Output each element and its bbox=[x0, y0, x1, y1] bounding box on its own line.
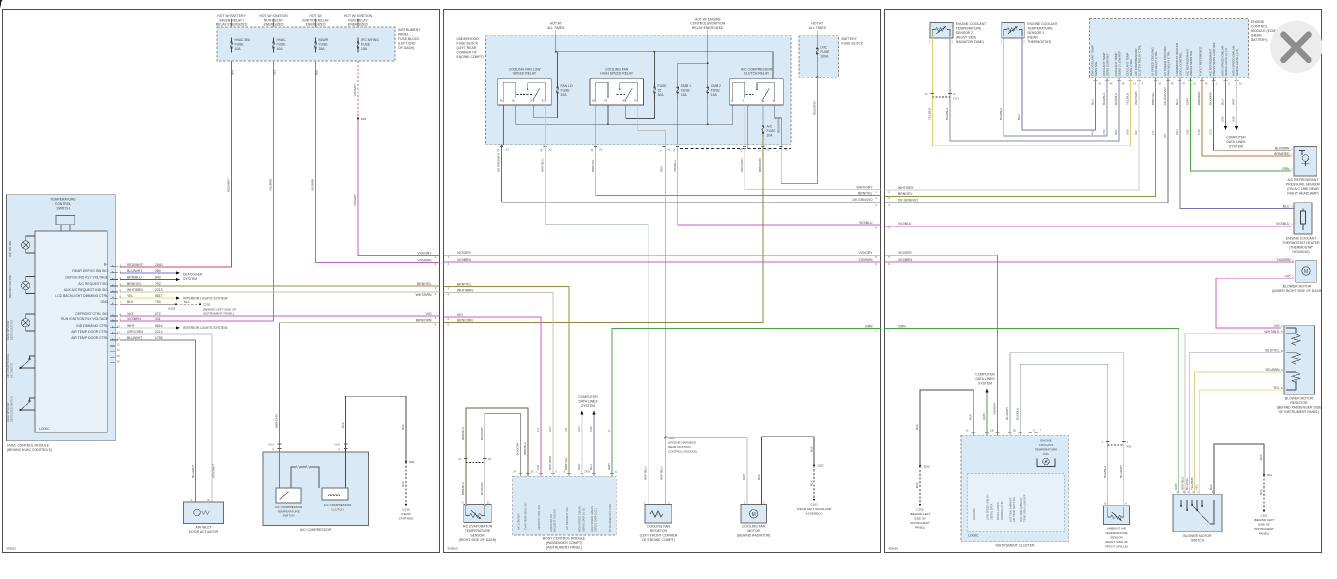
svg-text:BLU: BLU bbox=[589, 464, 593, 470]
svg-text:TEMP SENS LOW REF: TEMP SENS LOW REF bbox=[1023, 494, 1027, 522]
internal wiring relay K3 pin5 to battery feed riser bbox=[775, 105, 781, 144]
svg-text:A: A bbox=[338, 447, 340, 451]
svg-text:A: A bbox=[462, 500, 464, 504]
header label hot w/ battery saver relay bbox=[216, 14, 248, 27]
svg-text:BRN/YEL: BRN/YEL bbox=[457, 282, 472, 286]
svg-text:DEFOGGER SWITCH: DEFOGGER SWITCH bbox=[10, 396, 14, 422]
wire VIO 272 pin 8 to right edge exit 5 bbox=[120, 315, 440, 317]
HVAC module signal labels bbox=[55, 263, 108, 340]
svg-text:IPC B/FING: IPC B/FING bbox=[361, 38, 379, 42]
A/C evaporator temperature sensor box bbox=[464, 505, 492, 523]
svg-text:BLK/BLU: BLK/BLU bbox=[1102, 93, 1106, 105]
svg-text:BLU/WHT: BLU/WHT bbox=[191, 464, 195, 478]
svg-text:RED/GRN: RED/GRN bbox=[812, 101, 816, 115]
svg-text:BLU/GRY: BLU/GRY bbox=[1119, 465, 1123, 478]
wire YEL/BRN resistor pin A to blower switch bbox=[1195, 372, 1281, 494]
svg-text:BLK: BLK bbox=[401, 424, 405, 430]
HVAC module bottom label bbox=[7, 444, 52, 453]
wire GRY splice to cooling fan motor pin 1 bbox=[666, 438, 747, 505]
svg-text:B+: B+ bbox=[104, 263, 108, 267]
svg-text:TEMPERATURE: TEMPERATURE bbox=[1027, 27, 1053, 31]
svg-text:(RIGHT SIDE OF: (RIGHT SIDE OF bbox=[1105, 540, 1128, 544]
svg-text:VIO: VIO bbox=[1285, 274, 1291, 278]
wire VIO/BRN from fuse F3 to right edge exit 2 bbox=[316, 61, 440, 263]
wire stub to fuse F4 bbox=[357, 19, 359, 28]
svg-text:BLK: BLK bbox=[915, 424, 919, 430]
indicator lamp REAR WINDOW DEFOGGER IND bbox=[21, 314, 35, 331]
svg-text:FAN RELAY CTRL: FAN RELAY CTRL bbox=[1154, 51, 1158, 76]
svg-text:C202: C202 bbox=[203, 303, 211, 307]
left edge entry labels panel 2 bbox=[457, 251, 473, 322]
svg-text:BLK/BRN: BLK/BRN bbox=[1275, 146, 1290, 150]
fuse 35 30A bbox=[654, 83, 656, 100]
svg-text:INTERIOR LIGHTS SYSTEM: INTERIOR LIGHTS SYSTEM bbox=[183, 326, 227, 330]
internal wiring coil bus line A bbox=[516, 105, 733, 124]
internal wiring CMB1 fuse down to exit bbox=[677, 100, 679, 145]
svg-text:CMB 1: CMB 1 bbox=[681, 84, 691, 88]
svg-text:2761: 2761 bbox=[1102, 129, 1106, 135]
svg-text:SIDE OF: SIDE OF bbox=[1258, 523, 1270, 527]
svg-text:SYSTEM: SYSTEM bbox=[978, 382, 992, 386]
svg-text:G156: G156 bbox=[402, 508, 410, 512]
svg-text:OUT SIDE AMBIENT: OUT SIDE AMBIENT bbox=[1019, 497, 1023, 522]
through wire VIO/BRN panel1 to panel3 bbox=[444, 261, 881, 263]
svg-text:272: 272 bbox=[155, 312, 161, 316]
svg-text:HOUSING): HOUSING) bbox=[1293, 250, 1310, 254]
instrument cluster box bbox=[961, 435, 1069, 542]
svg-text:2213: 2213 bbox=[155, 330, 163, 334]
svg-text:X08: X08 bbox=[1127, 445, 1132, 449]
HVAC control module outer box bbox=[7, 195, 116, 441]
svg-text:VIO/BRN: VIO/BRN bbox=[859, 258, 873, 262]
right edge exit labels panel 2 bbox=[853, 186, 874, 329]
svg-text:SENSOR: SENSOR bbox=[1110, 536, 1124, 540]
svg-text:INSTRUMENT: INSTRUMENT bbox=[1254, 527, 1274, 531]
svg-text:WHT: WHT bbox=[127, 324, 135, 328]
svg-text:15A: 15A bbox=[681, 93, 688, 97]
svg-text:439655: 439655 bbox=[888, 547, 898, 551]
svg-text:A/C: A/C bbox=[767, 125, 773, 129]
svg-text:BLK: BLK bbox=[341, 422, 345, 428]
svg-text:X2: X2 bbox=[506, 148, 510, 152]
cooling fan motor box bbox=[741, 505, 767, 524]
svg-text:AIR INLET: AIR INLET bbox=[195, 526, 211, 530]
ECM internal pin function labels bbox=[1090, 42, 1239, 76]
svg-text:900: 900 bbox=[315, 70, 319, 75]
ECM pin ticks and numbers bbox=[1094, 79, 1239, 81]
svg-text:AIR TEMP SENS SIG: AIR TEMP SENS SIG bbox=[1012, 497, 1016, 522]
svg-text:LCD BACKLIGHT DIMMING CTRL: LCD BACKLIGHT DIMMING CTRL bbox=[55, 294, 108, 298]
wire WHT/BLU splice to cooling fan resistor pin 2 bbox=[665, 438, 667, 505]
svg-text:BLOWER MOTOR: BLOWER MOTOR bbox=[1285, 397, 1314, 401]
svg-text:C202: C202 bbox=[916, 508, 924, 512]
svg-text:BLK: BLK bbox=[757, 474, 761, 480]
svg-text:BRN/RED: BRN/RED bbox=[1197, 91, 1201, 105]
svg-text:TEMPERATURE: TEMPERATURE bbox=[1035, 448, 1057, 452]
wire BRN/RED ECM to pressure sensor pin 2 bbox=[1202, 78, 1291, 156]
fuse F4 IPC B/FING 10A bbox=[357, 38, 359, 53]
fuse block side label bbox=[398, 28, 420, 50]
A/C evaporator temperature sensor wires BRN/BLU and BLK/GRY bbox=[466, 408, 528, 504]
wire row labels pins 1-12 bbox=[127, 263, 163, 340]
svg-text:COOLING FAN: COOLING FAN bbox=[647, 525, 671, 529]
svg-text:VIO/BRN: VIO/BRN bbox=[898, 258, 912, 262]
svg-text:WHT/BRN: WHT/BRN bbox=[416, 293, 432, 297]
wire BLK 750 pin 7 to ground G202 bbox=[120, 303, 176, 305]
svg-text:OF ENGINE COMPT): OF ENGINE COMPT) bbox=[642, 538, 675, 542]
header hot w/ engine controls/ignition relay energized bbox=[690, 17, 725, 30]
svg-text:2213: 2213 bbox=[548, 426, 552, 432]
svg-text:AIR CONDITIONING: AIR CONDITIONING bbox=[6, 354, 10, 378]
rotated labels above blower switch bbox=[1174, 477, 1213, 490]
header hot at all times (battery) bbox=[809, 22, 827, 30]
through wire VIO/GRY panel1 to panel3 bbox=[444, 254, 881, 256]
wire BLK inside compressor box bbox=[345, 452, 347, 488]
svg-text:(LEFT REAR: (LEFT REAR bbox=[457, 46, 477, 50]
svg-text:X2: X2 bbox=[766, 148, 770, 152]
svg-text:BLK: BLK bbox=[915, 482, 919, 488]
svg-text:B: B bbox=[1281, 349, 1283, 353]
exit ticks at block bottom bbox=[500, 146, 783, 148]
svg-text:ENERGIZED: ENERGIZED bbox=[306, 23, 326, 27]
engine coolant temperature indicator bbox=[1035, 439, 1057, 457]
svg-text:E: E bbox=[1281, 386, 1283, 390]
wire BRN/ORN from right edge entry 6 to A/C compressor temp switch bbox=[280, 323, 440, 452]
svg-text:BLU: BLU bbox=[1221, 99, 1225, 105]
svg-text:RUN IGNITION RLY VOLTAGE: RUN IGNITION RLY VOLTAGE bbox=[61, 317, 109, 321]
wire VIO/BLU ECM to left edge exit 4 and thermostat heater pin 1 bbox=[885, 225, 1292, 227]
svg-text:433: 433 bbox=[1091, 130, 1095, 135]
wire DK GRN/VIO ECM to left edge exit 3 bbox=[885, 78, 1169, 203]
svg-text:VIO/GRY: VIO/GRY bbox=[858, 251, 873, 255]
svg-text:BLK/GRY: BLK/GRY bbox=[480, 427, 484, 440]
svg-text:439653: 439653 bbox=[448, 547, 458, 551]
wire BLK/BLU sensor1 pin1 to ECM bbox=[1004, 38, 1107, 136]
svg-text:13: 13 bbox=[117, 343, 121, 347]
svg-text:VIO/GRY: VIO/GRY bbox=[353, 194, 357, 206]
svg-text:2301: 2301 bbox=[577, 426, 581, 432]
svg-text:VIO/BRN: VIO/BRN bbox=[418, 258, 432, 262]
connector on ambient sensor wires bbox=[1108, 444, 1124, 446]
svg-text:792: 792 bbox=[155, 282, 161, 286]
battery fuse block bbox=[799, 36, 839, 77]
svg-text:16: 16 bbox=[117, 359, 121, 363]
BCM box bbox=[512, 476, 616, 535]
svg-text:BLK/BLU: BLK/BLU bbox=[1016, 408, 1020, 420]
svg-text:439652: 439652 bbox=[6, 547, 16, 551]
svg-text:GRY/WHT: GRY/WHT bbox=[211, 464, 215, 478]
svg-text:GND: GND bbox=[100, 300, 108, 304]
svg-text:REAR WINDOW: REAR WINDOW bbox=[6, 320, 10, 340]
svg-text:SWITCH: SWITCH bbox=[56, 206, 70, 210]
svg-text:BRN/RED: BRN/RED bbox=[1274, 152, 1290, 156]
svg-text:BLK: BLK bbox=[127, 300, 134, 304]
svg-text:BRN/YEL: BRN/YEL bbox=[417, 282, 432, 286]
svg-text:SENSOR: SENSOR bbox=[470, 534, 485, 538]
svg-text:AIR TEMP DOOR CTRL: AIR TEMP DOOR CTRL bbox=[71, 336, 108, 340]
fuse A/C 10A bbox=[762, 125, 764, 134]
svg-text:X2: X2 bbox=[549, 148, 553, 152]
svg-text:BATTERY: BATTERY bbox=[842, 37, 858, 41]
svg-text:DEFOG IND RLY VOLTAGE: DEFOG IND RLY VOLTAGE bbox=[65, 276, 108, 280]
wire WHT/GRY ECM to left edge exit 1 bbox=[885, 78, 1140, 190]
connector ticks on compressor wires bbox=[278, 444, 348, 449]
svg-text:TEMPERATURE: TEMPERATURE bbox=[1105, 531, 1127, 535]
svg-text:BLK/BLU: BLK/BLU bbox=[945, 108, 949, 120]
underhood fuse block bbox=[486, 36, 792, 145]
engine coolant temperature sensor 1 box bbox=[1002, 22, 1025, 38]
wire VIO blower motor pin 2 to resistor pin C bbox=[1216, 278, 1294, 328]
fuse CMB 2 15A bbox=[707, 83, 709, 100]
svg-text:(NEAR: (NEAR bbox=[1251, 34, 1262, 38]
svg-text:MODULE (ECM): MODULE (ECM) bbox=[1251, 29, 1276, 33]
svg-text:YEL/BLK: YEL/BLK bbox=[1126, 93, 1130, 105]
svg-text:HVAC B/U: HVAC B/U bbox=[235, 38, 251, 42]
svg-text:REAR WINDOW: REAR WINDOW bbox=[6, 402, 10, 422]
A/C compressor clutch bbox=[322, 488, 348, 500]
svg-text:X1: X1 bbox=[667, 148, 671, 152]
svg-text:IND: IND bbox=[1043, 452, 1049, 456]
svg-text:5922: 5922 bbox=[1114, 129, 1118, 135]
svg-text:FAN LO: FAN LO bbox=[561, 84, 573, 88]
svg-text:ENERGIZED: ENERGIZED bbox=[348, 23, 368, 27]
svg-text:OF INSTRUMENT PANEL): OF INSTRUMENT PANEL) bbox=[1279, 410, 1320, 414]
svg-text:BLK: BLK bbox=[809, 480, 813, 486]
left edge entry labels panel 3 bbox=[898, 186, 918, 329]
wire BRN/ORN inside compressor box bbox=[279, 452, 281, 488]
svg-text:604: 604 bbox=[231, 70, 235, 75]
wire DK GRN/WHT relay K1 86 to right edge exit 3 bbox=[502, 105, 881, 202]
ECM box bbox=[1090, 19, 1249, 78]
svg-text:1565: 1565 bbox=[1186, 129, 1190, 135]
svg-text:5921: 5921 bbox=[1175, 129, 1179, 135]
svg-text:BLK/BRN: BLK/BRN bbox=[1209, 92, 1213, 105]
svg-text:BRN/ORN: BRN/ORN bbox=[275, 414, 279, 428]
svg-text:SERIAL DATA (+) (1): SERIAL DATA (+) (1) bbox=[581, 508, 585, 532]
fuse CMB 1 15A bbox=[677, 83, 679, 100]
svg-text:BRN/ORN: BRN/ORN bbox=[758, 158, 762, 172]
svg-text:VIO/GRY: VIO/GRY bbox=[993, 403, 997, 415]
svg-text:HIGH SPEED RELAY: HIGH SPEED RELAY bbox=[600, 72, 633, 76]
svg-text:(RIGHT SIDE OF DASH): (RIGHT SIDE OF DASH) bbox=[459, 538, 497, 542]
svg-text:WHT/GRY: WHT/GRY bbox=[740, 158, 744, 172]
svg-text:REQUEST IND SIG: REQUEST IND SIG bbox=[552, 509, 556, 532]
svg-text:SERIAL DATA (-) (1): SERIAL DATA (-) (1) bbox=[1235, 49, 1239, 76]
svg-text:DEFROST CTRL SIG: DEFROST CTRL SIG bbox=[75, 312, 108, 316]
svg-text:CLUTCH RELAY: CLUTCH RELAY bbox=[744, 72, 770, 76]
BCM pin ticks and numbers bbox=[519, 473, 614, 475]
internal link temp switch to clutch bbox=[291, 467, 319, 488]
svg-text:BLWR: BLWR bbox=[319, 38, 329, 42]
svg-text:G101: G101 bbox=[810, 503, 818, 507]
rotated wire labels above BCM bbox=[536, 456, 611, 470]
connector on sensor 2 wires bbox=[932, 96, 950, 98]
svg-text:D: D bbox=[1281, 330, 1283, 334]
svg-text:RADIATOR TANK): RADIATOR TANK) bbox=[956, 40, 984, 44]
wire BLK/BLU sensor2 pin2 to ECM bbox=[950, 38, 1119, 141]
svg-text:10A: 10A bbox=[277, 47, 284, 51]
panel 3 frame bbox=[885, 10, 1322, 553]
svg-text:FRONT GRILLE): FRONT GRILLE) bbox=[1105, 545, 1128, 549]
svg-text:LOGIC: LOGIC bbox=[968, 534, 979, 538]
svg-text:GRY: GRY bbox=[659, 166, 663, 172]
fuse block FB1 (instrument panel fuse block) bbox=[217, 27, 395, 61]
svg-text:PANEL): PANEL) bbox=[915, 526, 926, 530]
svg-text:J202: J202 bbox=[923, 464, 930, 468]
internal wiring relay K3 pin1 down through A/C fuse bbox=[762, 105, 764, 126]
svg-text:FUSE BLOCK: FUSE BLOCK bbox=[457, 42, 479, 46]
wire VIO/GRY from fuse F4 (dashed above splice 209) to right edge exit 1 bbox=[357, 61, 359, 118]
wire BRN/YEL left entry 3 to BCM pin 9 bbox=[444, 287, 570, 476]
engine coolant temperature sensor 2 box bbox=[930, 22, 953, 38]
relay K2 cooling fan high speed relay bbox=[590, 67, 644, 105]
wire WHT/BLK resistor pin D to blower switch bbox=[1185, 334, 1281, 494]
svg-text:BLK/GRY: BLK/GRY bbox=[516, 442, 520, 455]
svg-text:BLU/GRY: BLU/GRY bbox=[1005, 407, 1009, 420]
svg-text:201: 201 bbox=[1267, 473, 1272, 477]
svg-text:FUSE: FUSE bbox=[277, 43, 287, 47]
indicator lamp A/C ON IND bbox=[21, 236, 35, 253]
svg-text:DEFOGGER IND: DEFOGGER IND bbox=[10, 320, 14, 340]
panel 2 frame bbox=[444, 10, 881, 553]
internal wiring relay K1 pin30 to FAN LO fuse bbox=[534, 100, 558, 118]
svg-text:YEL/BRN: YEL/BRN bbox=[1265, 368, 1280, 372]
svg-text:FUSE BLOCK: FUSE BLOCK bbox=[842, 42, 864, 46]
svg-text:5816: 5816 bbox=[155, 324, 163, 328]
svg-text:10A: 10A bbox=[361, 47, 368, 51]
corner artifact top-left bbox=[0, 0, 2, 8]
svg-text:NCA: NCA bbox=[335, 443, 341, 447]
svg-text:IND DIMMING CTRL: IND DIMMING CTRL bbox=[76, 324, 108, 328]
wire GRN instrument cluster data line with arrow bbox=[986, 393, 988, 436]
svg-text:RELAY ENERGIZED: RELAY ENERGIZED bbox=[692, 26, 724, 30]
svg-text:BLU: BLU bbox=[1283, 204, 1290, 208]
svg-text:RELAY ENERGIZED: RELAY ENERGIZED bbox=[216, 23, 248, 27]
wire VIO/BRN 441 from fuse F2 to HVAC pin 9 bbox=[120, 61, 274, 321]
svg-text:DATA LINES: DATA LINES bbox=[578, 400, 598, 404]
svg-text:FUSE: FUSE bbox=[767, 129, 777, 133]
svg-text:SPEED RELAY: SPEED RELAY bbox=[513, 72, 537, 76]
svg-text:LNC: LNC bbox=[820, 46, 827, 50]
svg-text:RESISTOR: RESISTOR bbox=[1290, 401, 1308, 405]
svg-text:NCA: NCA bbox=[269, 443, 275, 447]
wire BRN/BLU 843 pin 3 to defogger system arrow bbox=[120, 279, 176, 281]
svg-text:335: 335 bbox=[1163, 133, 1167, 138]
svg-text:SIDE OF: SIDE OF bbox=[914, 517, 926, 521]
svg-text:BLK: BLK bbox=[184, 300, 190, 304]
svg-text:FUSE: FUSE bbox=[319, 43, 329, 47]
A/C refrigerant pressure sensor box bbox=[1294, 147, 1317, 177]
svg-text:5 VOLT REFERENCE: 5 VOLT REFERENCE bbox=[1199, 47, 1203, 76]
svg-text:HIGH SPEED GMLAN: HIGH SPEED GMLAN bbox=[590, 506, 594, 532]
svg-text:BRN/YEL: BRN/YEL bbox=[127, 282, 142, 286]
svg-text:A/C COMPRESSOR: A/C COMPRESSOR bbox=[300, 528, 332, 532]
svg-text:YEL: YEL bbox=[127, 294, 134, 298]
svg-text:11: 11 bbox=[117, 330, 120, 334]
svg-text:(BEHIND RADIATOR): (BEHIND RADIATOR) bbox=[737, 534, 770, 538]
svg-text:OUT SIDE AMBIENT: OUT SIDE AMBIENT bbox=[1009, 497, 1013, 522]
wire RED/GRN orange battery feed to clutch relay bbox=[781, 77, 817, 183]
wire YEL/BLK sensor2 pin1 to ECM bbox=[932, 38, 1130, 146]
svg-text:VIO/GRY: VIO/GRY bbox=[353, 84, 357, 96]
svg-text:(LEFT FRONT CORNER: (LEFT FRONT CORNER bbox=[640, 534, 678, 538]
svg-text:VIO/BLU: VIO/BLU bbox=[673, 160, 677, 172]
svg-text:BRN/YEL: BRN/YEL bbox=[1151, 92, 1155, 105]
relay K1 cooling fan low speed relay bbox=[498, 67, 552, 105]
wire BLK cooling fan motor to ground bbox=[762, 437, 815, 505]
battery fuse block label bbox=[842, 37, 864, 46]
svg-text:LOGIC: LOGIC bbox=[39, 427, 50, 431]
svg-text:750: 750 bbox=[155, 300, 161, 304]
svg-text:PRESS SENS SIG: PRESS SENS SIG bbox=[1189, 50, 1193, 76]
svg-text:WHT/BRN: WHT/BRN bbox=[127, 288, 143, 292]
svg-text:YEL/BLK: YEL/BLK bbox=[928, 108, 932, 120]
svg-text:BRN/ORN: BRN/ORN bbox=[457, 318, 473, 322]
svg-text:GRY: GRY bbox=[742, 474, 746, 480]
svg-text:CONTROL: CONTROL bbox=[1251, 25, 1268, 29]
svg-text:(ENGINE HARNESS: (ENGINE HARNESS bbox=[668, 441, 696, 445]
blower motor box bbox=[1296, 260, 1316, 282]
svg-text:A/C LOW REF: A/C LOW REF bbox=[516, 513, 520, 530]
svg-text:(THERMOSTAT: (THERMOSTAT bbox=[1289, 246, 1313, 250]
fuse F1 HVAC B/U 10A bbox=[231, 38, 233, 53]
svg-text:BRN/BLU: BRN/BLU bbox=[461, 427, 465, 440]
svg-text:(BEHIND LEFT: (BEHIND LEFT bbox=[1254, 518, 1275, 522]
svg-text:A/C EVAPORATOR: A/C EVAPORATOR bbox=[463, 525, 493, 529]
svg-text:VIO: VIO bbox=[536, 464, 540, 470]
svg-text:HIGH SPEED GMLAN: HIGH SPEED GMLAN bbox=[578, 506, 582, 532]
svg-text:YEL: YEL bbox=[1195, 484, 1199, 490]
wire VIO left entry 5 to BCM pin 2 bbox=[444, 317, 542, 476]
svg-text:VIO/BRN: VIO/BRN bbox=[311, 179, 315, 191]
svg-text:GRN: GRN bbox=[898, 324, 906, 328]
svg-text:BLU: BLU bbox=[1017, 114, 1021, 120]
svg-text:YEL: YEL bbox=[1273, 386, 1280, 390]
svg-text:PANEL LAMPS: PANEL LAMPS bbox=[996, 502, 1000, 520]
svg-text:BODY CONTROL MODULE: BODY CONTROL MODULE bbox=[543, 537, 586, 541]
svg-text:BRN/YEL: BRN/YEL bbox=[591, 159, 595, 172]
svg-text:BLK: BLK bbox=[968, 414, 972, 420]
ECM data link wires BLU and WHT with arrows bbox=[1225, 78, 1227, 126]
svg-text:(NEAR: (NEAR bbox=[1027, 36, 1038, 40]
svg-text:2213: 2213 bbox=[155, 288, 163, 292]
svg-text:SENS 2 SIG: SENS 2 SIG bbox=[1129, 59, 1133, 76]
svg-text:PANEL): PANEL) bbox=[1259, 532, 1270, 536]
svg-text:VIO: VIO bbox=[457, 313, 463, 317]
svg-text:35: 35 bbox=[658, 89, 662, 93]
svg-text:(ON A/C LINE NEAR: (ON A/C LINE NEAR bbox=[1287, 187, 1319, 191]
svg-text:FUSE: FUSE bbox=[658, 84, 668, 88]
svg-text:UNDERHOOD: UNDERHOOD bbox=[457, 37, 480, 41]
close button bbox=[1270, 21, 1322, 73]
svg-text:VIO/GRY: VIO/GRY bbox=[417, 251, 432, 255]
svg-text:CMB 2: CMB 2 bbox=[711, 84, 721, 88]
fuse F2 HVAC 10A bbox=[273, 38, 275, 53]
svg-text:843: 843 bbox=[155, 276, 161, 280]
svg-text:15A: 15A bbox=[711, 93, 718, 97]
svg-text:ASSEMBLY): ASSEMBLY) bbox=[806, 512, 823, 516]
wire BLK/BLU cluster to ambient sensor pin B bbox=[1020, 364, 1107, 505]
svg-text:WHT/BLU: WHT/BLU bbox=[659, 467, 663, 481]
svg-text:472: 472 bbox=[1151, 130, 1155, 135]
svg-text:SYSTEM: SYSTEM bbox=[183, 277, 197, 281]
fuse LNC 100A (battery block) bbox=[816, 44, 818, 62]
BCM data link wires WHT and BLU with arrows bbox=[581, 415, 583, 476]
svg-text:COOLING FAN: COOLING FAN bbox=[742, 525, 766, 529]
connector on evaporator sensor wires bbox=[466, 462, 485, 464]
svg-text:FUSE: FUSE bbox=[681, 89, 691, 93]
svg-text:WHT/GRY: WHT/GRY bbox=[898, 186, 915, 190]
